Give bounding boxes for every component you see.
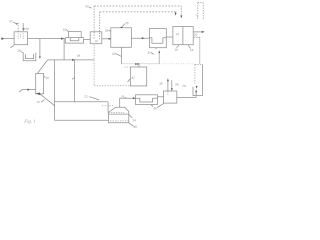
svg-text:24: 24 bbox=[132, 118, 136, 122]
svg-text:12: 12 bbox=[9, 19, 13, 23]
svg-text:20: 20 bbox=[182, 84, 186, 88]
svg-text:18: 18 bbox=[190, 48, 194, 52]
svg-text:32: 32 bbox=[147, 51, 151, 55]
svg-text:42: 42 bbox=[85, 4, 89, 8]
svg-text:28: 28 bbox=[125, 21, 129, 25]
svg-text:20: 20 bbox=[194, 33, 198, 37]
svg-text:16: 16 bbox=[174, 48, 178, 52]
svg-text:44: 44 bbox=[137, 64, 141, 68]
svg-text:26: 26 bbox=[105, 29, 109, 33]
svg-text:40: 40 bbox=[153, 106, 157, 110]
svg-text:14: 14 bbox=[175, 32, 179, 36]
svg-text:36: 36 bbox=[159, 82, 163, 86]
svg-text:28: 28 bbox=[17, 49, 21, 53]
svg-text:26: 26 bbox=[26, 27, 30, 31]
svg-text:42: 42 bbox=[131, 76, 135, 80]
svg-text:18: 18 bbox=[95, 39, 99, 43]
svg-text:30: 30 bbox=[112, 52, 116, 56]
svg-text:34: 34 bbox=[77, 54, 81, 58]
svg-text:10: 10 bbox=[63, 28, 67, 32]
svg-text:16: 16 bbox=[46, 76, 50, 80]
svg-text:26: 26 bbox=[121, 94, 125, 98]
svg-text:46: 46 bbox=[134, 125, 138, 129]
svg-text:22: 22 bbox=[84, 95, 88, 99]
svg-text:Fig. 1: Fig. 1 bbox=[23, 119, 35, 124]
svg-text:18: 18 bbox=[36, 100, 40, 104]
svg-text:38: 38 bbox=[175, 83, 179, 87]
